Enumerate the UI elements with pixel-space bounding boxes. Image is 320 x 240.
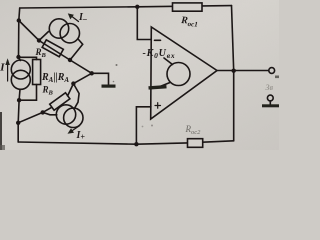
- label RB lower: [42, 85, 54, 97]
- wire left vertical: [19, 8, 20, 57]
- label I: [0, 62, 5, 74]
- wire non-inverting input: [136, 107, 151, 144]
- scan smudge left edge: [0, 112, 5, 150]
- label I-: [78, 12, 87, 24]
- node ground junction: [90, 71, 94, 75]
- node Q2: [71, 81, 75, 85]
- label I+: [76, 130, 86, 142]
- ground (center): [102, 85, 116, 88]
- label Roc2: [185, 124, 202, 136]
- current source I- (parallel with upper RB): [39, 19, 83, 60]
- label -K0Uвх: [143, 48, 176, 60]
- arrow I+: [68, 126, 80, 134]
- resistor RB lower: [43, 84, 74, 113]
- wire right vertical: [232, 6, 234, 141]
- node RA top: [16, 55, 20, 59]
- op-amp U1 triangle: [151, 27, 217, 119]
- arrow I-: [68, 13, 79, 21]
- wire left vertical lower: [17, 100, 20, 142]
- wire bottom rail: [18, 141, 234, 144]
- node output: [232, 69, 236, 73]
- scan specks center: [113, 64, 153, 127]
- plus sign: [155, 103, 161, 109]
- wire output: [217, 70, 269, 72]
- arrow I: [5, 58, 10, 81]
- terminal output top: [269, 68, 275, 74]
- label Roc1: [180, 15, 199, 29]
- resistor RA||RA: [19, 57, 41, 100]
- wire upper branch diagonal: [19, 21, 92, 74]
- ground (output terminal): [262, 101, 279, 107]
- node upper branch start: [17, 18, 21, 22]
- wire junction to ground: [92, 73, 109, 84]
- wire lower branch diagonal: [18, 73, 92, 123]
- node Q1: [41, 110, 45, 114]
- svg-text:I: I: [0, 62, 5, 74]
- resistor Roc1: [173, 3, 203, 11]
- ground (op-amp source): [148, 83, 170, 90]
- controlled source circle: [164, 58, 190, 86]
- label RB upper: [35, 47, 47, 59]
- svg-text:Зв: Зв: [266, 83, 274, 92]
- svg-text:I+: I+: [76, 130, 86, 142]
- wire top rail: [20, 6, 232, 8]
- current source I+ (parallel with lower RB): [43, 84, 83, 128]
- minus sign: [155, 39, 161, 41]
- resistor RB upper: [42, 40, 63, 57]
- node RA bottom: [17, 98, 21, 102]
- terminal output bottom: [267, 95, 273, 101]
- paper background: [0, 0, 279, 150]
- node bottom rail: [134, 142, 138, 146]
- current source I: [11, 57, 30, 100]
- resistor Roc2: [188, 139, 203, 148]
- node lower branch start: [16, 121, 20, 125]
- label output: [266, 83, 274, 92]
- scan speck top right: [275, 76, 279, 79]
- node P1: [37, 38, 41, 42]
- node top rail: [135, 5, 139, 9]
- label RA||RA: [41, 72, 69, 84]
- wire inverting input: [137, 7, 151, 40]
- svg-text:I–: I–: [78, 12, 87, 24]
- node P2: [68, 58, 72, 62]
